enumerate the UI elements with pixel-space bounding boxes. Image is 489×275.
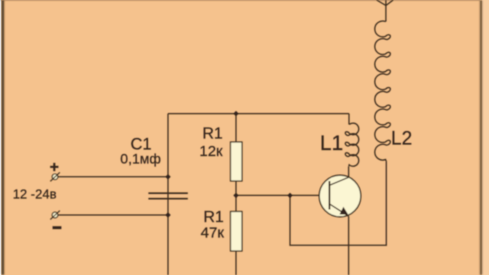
wire: main vertical through C1 [167,114,169,275]
capacitor C1 plates [148,192,187,194]
wire: R1 47k bottom to edge [235,251,237,275]
svg-text:R1: R1 [203,209,224,226]
wire: L1 top drop [348,114,350,125]
inductor L1 (4 loops) [345,123,359,166]
transistor Q1 body [319,175,361,217]
resistor R1 12k [231,142,243,181]
inductor L2 (8 loops) [375,21,391,161]
wire: feedback loop L2 bottom to base [290,161,386,245]
svg-text:L1: L1 [320,132,343,155]
wire: R1 12k bottom to base rail [235,181,237,195]
svg-text:0,1мф: 0,1мф [120,150,161,166]
node: + rail / C1 junction [165,174,170,179]
transistor Q1 collector [329,177,348,185]
svg-text:12 -24в: 12 -24в [13,186,57,201]
wire: L1 bottom to collector [348,167,350,178]
svg-text:47к: 47к [201,225,225,242]
node: top rail / R1 junction [233,111,238,116]
transistor Q1 emitter arrow [340,207,349,215]
terminal X2 (-) [52,212,58,218]
transistor Q1 emitter [329,204,348,216]
wire: + supply rail from terminal to C1 node [58,176,168,178]
node: base / feedback junction [287,193,292,198]
wire: R1 12k drop from top rail [235,114,237,142]
transistor Q1 base bar [328,181,330,210]
wire: base rail to transistor [236,194,329,196]
label - [53,226,62,229]
terminal X1 (+) [52,174,58,180]
wire: top rail [168,113,349,115]
svg-text:R1: R1 [202,126,223,143]
wire: R1 47k top [235,195,237,211]
resistor R1 47k [231,212,243,252]
wire: - supply rail from terminal to C1 node [58,214,168,216]
svg-text:L2: L2 [391,128,412,149]
wire: emitter down to edge [348,216,350,275]
antenna W1 [377,0,394,22]
node: - rail / C1 junction [165,212,170,217]
svg-text:+: + [50,159,59,176]
svg-text:12к: 12к [199,143,223,160]
node: base / R1 junction [233,193,238,198]
